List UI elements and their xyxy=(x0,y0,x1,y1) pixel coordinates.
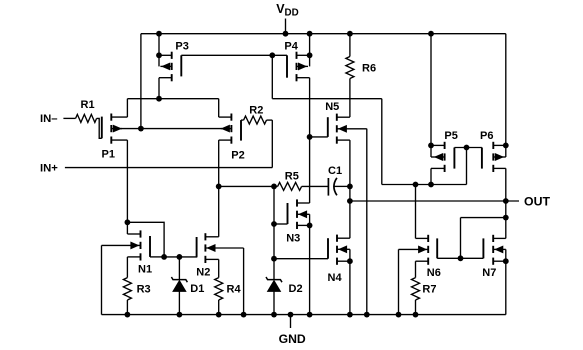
junction GND rail/N5 bulk xyxy=(364,312,370,318)
svg-text:N1: N1 xyxy=(138,264,152,276)
svg-text:N2: N2 xyxy=(196,266,210,278)
wire P3 source column from rail xyxy=(158,34,160,67)
wire P2 drain up xyxy=(218,99,220,117)
wire rail left drop to input-pair bulk xyxy=(140,34,142,129)
wire bus corner up to P5/P6 gates xyxy=(466,148,468,185)
wire R2 to P2 gate xyxy=(241,119,244,121)
wire N2 source down through R4 xyxy=(218,259,220,277)
wire P6 drain down to OUT and N7 xyxy=(505,168,507,238)
junction P6 source xyxy=(503,143,509,149)
wire IN+ line xyxy=(65,167,272,169)
wire D2 anode to GND xyxy=(273,291,275,314)
junction output node / OUT line xyxy=(347,198,353,204)
svg-text:IN–: IN– xyxy=(40,113,58,125)
transistor P3 xyxy=(159,52,181,82)
wire P4 source column from rail xyxy=(309,34,311,67)
wire R1 to P1 gate xyxy=(97,118,102,138)
wire P5-P6 common gate xyxy=(454,147,482,149)
junction GND rail/N4 source xyxy=(347,312,353,318)
junction GND rail/N6 bulk xyxy=(396,312,402,318)
svg-text:R2: R2 xyxy=(249,105,263,117)
GND stem xyxy=(290,315,292,328)
junction GND rail/GND stem xyxy=(288,312,294,318)
wire OUT line xyxy=(350,200,519,202)
wire R6 to N5 drain xyxy=(349,79,351,118)
wire GND bottom rail xyxy=(102,314,506,316)
junction GND rail/R4 xyxy=(216,312,222,318)
wire bias riser 2 down xyxy=(381,99,383,185)
svg-text:P1: P1 xyxy=(102,149,115,161)
resistor R4 xyxy=(215,278,223,300)
wire N6 source down through R7 xyxy=(415,261,417,277)
junction P6 drain / OUT xyxy=(503,198,509,204)
wire rail right drop to P6 source xyxy=(505,34,507,157)
junction bus / P5 drain xyxy=(428,182,434,188)
junction output node / C1 xyxy=(347,184,353,190)
wire bias riser down xyxy=(271,55,273,98)
svg-text:R4: R4 xyxy=(227,284,242,296)
wire P1 source down to N1 drain xyxy=(126,140,128,234)
junction P4 source xyxy=(307,52,313,58)
wire P5 drain down to bus xyxy=(430,168,432,184)
transistor N2 xyxy=(197,233,244,263)
transistor N1 xyxy=(102,230,151,260)
wire N1 source down through R3 xyxy=(126,257,128,278)
wire IN- lead xyxy=(63,117,75,119)
svg-text:N7: N7 xyxy=(482,267,496,279)
wire rail to R6 xyxy=(349,34,351,57)
transistor N4 xyxy=(328,235,350,265)
wire N3 gate lead xyxy=(274,223,288,225)
svg-text:P6: P6 xyxy=(480,130,493,142)
junction high-Z / N5 gate xyxy=(307,134,313,140)
junction rail/P4 column xyxy=(307,31,313,37)
junction N3 source xyxy=(307,223,313,229)
svg-text:P2: P2 xyxy=(231,149,244,161)
junction N4 gate xyxy=(271,256,277,262)
wire P3-P4 common gate xyxy=(181,54,287,56)
wire R2 to riser xyxy=(267,119,273,121)
svg-text:N4: N4 xyxy=(328,272,343,284)
svg-text:GND: GND xyxy=(279,332,306,346)
svg-text:P4: P4 xyxy=(284,41,298,53)
junction P3 source xyxy=(156,52,162,58)
wire VDD top rail xyxy=(141,33,506,35)
junction N1 gate node xyxy=(161,254,167,260)
junction gate tie xyxy=(464,145,470,151)
diode D1 (zener, cathode up) xyxy=(171,277,187,291)
transistor P5 xyxy=(431,142,454,172)
transistor P4 xyxy=(287,52,310,82)
junction rail/P3 column xyxy=(156,31,162,37)
wire N6 bulk to GND xyxy=(398,249,400,314)
wire N6 drain up to bus xyxy=(415,185,417,239)
transistor P1 xyxy=(102,114,128,144)
junction N7 source xyxy=(503,258,509,264)
svg-text:N5: N5 xyxy=(325,101,339,113)
wire N1 gate lead xyxy=(150,256,164,258)
wire N3 bulk/source down xyxy=(309,214,311,314)
svg-text:D1: D1 xyxy=(190,283,204,295)
wire common bulk of P1/P2 to VDD xyxy=(121,128,222,130)
wire P3 drain down to W1 xyxy=(158,78,160,99)
svg-text:R3: R3 xyxy=(137,284,151,296)
junction gate tie riser xyxy=(458,255,464,261)
VDD supply stem xyxy=(285,19,287,34)
junction GND rail/D2 xyxy=(271,312,277,318)
wire R3 to GND xyxy=(126,300,128,315)
wire N4 gate lead xyxy=(274,258,328,260)
junction N4 source xyxy=(347,258,353,264)
junction P1 source / N1 gate tie xyxy=(125,219,131,225)
wire second-stage bus xyxy=(382,184,467,186)
resistor R2 xyxy=(244,116,267,124)
resistor R1 xyxy=(76,114,97,122)
wire N5 source down (output node) xyxy=(349,140,351,238)
wire N5 bulk down to GND xyxy=(366,129,368,315)
wire N4 bulk/source to GND xyxy=(349,249,351,314)
resistor R3 xyxy=(123,278,131,300)
svg-text:R6: R6 xyxy=(362,62,376,74)
junction P2 source / R5 wire xyxy=(216,184,222,190)
transistor P2 xyxy=(219,114,241,144)
junction rail/R6 xyxy=(347,31,353,37)
junction W1 / P3 drain xyxy=(156,96,162,102)
wire R4 to GND xyxy=(218,300,220,315)
svg-text:N6: N6 xyxy=(427,267,441,279)
svg-text:N3: N3 xyxy=(286,233,300,245)
junction GND rail/R7 xyxy=(413,312,419,318)
svg-text:P5: P5 xyxy=(444,130,457,142)
svg-text:IN+: IN+ xyxy=(40,162,58,174)
transistor N5 xyxy=(328,114,367,144)
transistor N7 xyxy=(483,235,505,265)
transistor N3 xyxy=(288,199,310,229)
resistor R5 xyxy=(278,182,302,190)
junction bus / N6 drain xyxy=(413,182,419,188)
junction R5 / D2 column xyxy=(271,184,277,190)
junction gate bias tap xyxy=(269,52,275,58)
transistor P6 xyxy=(482,142,506,172)
svg-text:D2: D2 xyxy=(289,283,303,295)
wire IN+ riser to R2 xyxy=(271,120,273,168)
junction P5 source xyxy=(428,143,434,149)
svg-text:R1: R1 xyxy=(81,99,95,111)
transistor N6 xyxy=(399,235,438,265)
wire D1 cathode column xyxy=(178,257,180,280)
svg-text:P3: P3 xyxy=(175,40,188,52)
wire P2 source node to R5 xyxy=(219,185,278,187)
wire R5 node down to N3/N4 gates and D2 xyxy=(273,186,275,279)
junction N3 gate xyxy=(271,221,277,227)
svg-text:OUT: OUT xyxy=(524,194,550,208)
wire R7 to GND xyxy=(415,300,417,315)
wire P5 source column from rail xyxy=(430,34,432,157)
wire N7 bulk/source down xyxy=(505,249,507,314)
wire N6-N7 common gate xyxy=(437,257,483,259)
wire gate row to N2 gate xyxy=(164,256,197,258)
wire P2 source down to N2 drain xyxy=(218,140,220,237)
wire N2 bulk down to GND xyxy=(243,248,245,315)
wire N5 gate lead xyxy=(310,136,328,138)
wire N1 bulk to GND corner xyxy=(101,245,103,314)
junction D1 top xyxy=(177,254,183,260)
junction GND rail/R3 xyxy=(125,312,131,318)
wire R5 to C1 xyxy=(302,185,329,187)
diode D2 (zener, cathode up) xyxy=(266,277,282,291)
junction GND rail/N3 source xyxy=(307,312,313,318)
wire bias run to right xyxy=(272,98,382,100)
junction P6 drain / N6-N7 gate tie xyxy=(503,215,509,221)
junction bulk wire / VDD drop xyxy=(138,126,144,132)
svg-text:R5: R5 xyxy=(285,170,299,182)
wire gate riser up xyxy=(460,218,462,259)
junction GND rail/N2 bulk xyxy=(241,312,247,318)
wire D1 anode to GND xyxy=(178,291,180,314)
junction rail/P5 column xyxy=(428,31,434,37)
resistor R6 xyxy=(346,57,354,79)
svg-text:R7: R7 xyxy=(422,284,436,296)
junction VDD stem xyxy=(283,31,289,37)
wire P4 drain down high-Z node xyxy=(309,78,311,203)
wire gate tie over to P6 drain xyxy=(461,217,506,219)
junction GND rail/D1 xyxy=(177,312,183,318)
wire W1 P1/P2 drains to P3 drain xyxy=(127,98,218,100)
resistor R7 xyxy=(412,278,420,300)
wire P1 drain up xyxy=(126,99,128,117)
capacitor C1 xyxy=(328,178,350,196)
svg-text:C1: C1 xyxy=(328,165,342,177)
wire N1 gate tie up/over to drain xyxy=(127,222,164,257)
